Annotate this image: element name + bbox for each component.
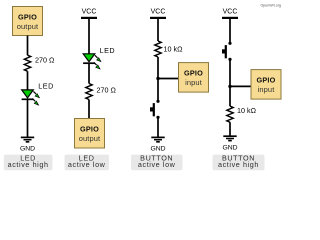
svg-text:active high: active high (8, 160, 49, 169)
svg-text:270 Ω: 270 Ω (97, 85, 117, 94)
svg-text:GPIO: GPIO (18, 13, 37, 22)
svg-text:10 kΩ: 10 kΩ (237, 106, 257, 115)
svg-text:LED: LED (38, 82, 53, 91)
svg-text:OpenWrt.org: OpenWrt.org (260, 3, 281, 7)
svg-text:270 Ω: 270 Ω (35, 56, 55, 65)
svg-text:GPIO: GPIO (184, 69, 203, 78)
svg-text:active low: active low (68, 160, 106, 169)
svg-text:input: input (185, 78, 203, 87)
svg-text:active low: active low (138, 160, 176, 169)
svg-text:GPIO: GPIO (256, 76, 275, 85)
svg-text:output: output (79, 134, 101, 143)
svg-text:input: input (258, 85, 276, 94)
svg-text:10 kΩ: 10 kΩ (164, 45, 184, 54)
svg-text:output: output (17, 22, 39, 31)
svg-text:LED: LED (100, 46, 115, 55)
svg-text:GPIO: GPIO (80, 125, 99, 134)
svg-text:active high: active high (218, 160, 259, 169)
